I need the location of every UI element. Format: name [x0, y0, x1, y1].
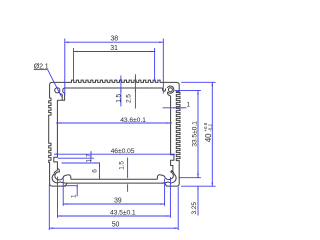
left wall inner face with panel groove — [54, 100, 58, 170]
dimension 1.7 line — [90, 152, 92, 158]
dimension 31 line — [74, 51, 155, 53]
svg-text:43.6±0.1: 43.6±0.1 — [120, 117, 146, 124]
right wall inner face with panel groove — [171, 96, 174, 170]
dimension 46 line — [54, 153, 175, 155]
dimension 33.5 line — [197, 90, 199, 177]
svg-text:2.5: 2.5 — [125, 94, 132, 103]
extension line bottom face right — [181, 185, 215, 187]
dimension 40 +0.8/-0.2 line — [211, 82, 213, 186]
svg-text:1.5: 1.5 — [115, 94, 122, 103]
top-left screw boss hole Ø2.1 — [55, 88, 60, 93]
svg-text:38: 38 — [111, 36, 119, 43]
dimension 43.5 extension lines — [57, 177, 59, 218]
dimension 1.5 (fin height) line — [120, 75, 122, 106]
svg-text:1: 1 — [187, 101, 191, 108]
top-right screw boss wall — [167, 86, 174, 96]
bottom-left screw boss (slot opens right) — [55, 169, 71, 180]
dimension 38 extension lines — [64, 39, 66, 96]
svg-text:3.25: 3.25 — [191, 202, 198, 215]
dimension 39 extension lines — [62, 177, 64, 206]
svg-text:46±0.05: 46±0.05 — [111, 148, 135, 155]
dimension 3.25 line — [197, 172, 199, 178]
dimension 39 line — [63, 203, 164, 205]
dimension 6 line — [99, 163, 101, 179]
dimension 1 (foot step) line — [76, 184, 78, 196]
dimension 1.5 (bottom wall) line — [127, 158, 129, 177]
svg-text:1.7: 1.7 — [86, 153, 93, 162]
dimension 43.5 line — [58, 215, 171, 217]
top-right screw boss slot notch — [163, 88, 166, 91]
extension line bottom boss centre — [179, 177, 201, 179]
leader line to screw hole — [34, 69, 48, 71]
svg-text:50: 50 — [112, 222, 120, 229]
bottom wall inner ledge — [71, 178, 158, 180]
extension line top face right — [181, 81, 215, 83]
dimension 43.6 line — [56, 122, 172, 124]
dimension 2.5 line — [134, 74, 136, 108]
bottom-right screw boss outer wall — [161, 171, 176, 184]
dimension 38 line — [65, 41, 164, 43]
svg-text:-0.2: -0.2 — [207, 123, 212, 131]
bottom-right screw boss (slot opens left) — [157, 170, 173, 180]
svg-text:6: 6 — [92, 169, 99, 173]
top-left screw boss slot — [57, 88, 64, 100]
svg-text:43.5±0.1: 43.5±0.1 — [110, 210, 136, 217]
dimension 31 extension lines — [73, 48, 75, 81]
top-right screw boss hole Ø2.1 — [168, 88, 172, 92]
extension line ledge upper — [62, 162, 101, 164]
svg-text:33.5±0.1: 33.5±0.1 — [191, 121, 198, 147]
bottom-left screw boss outer wall — [52, 171, 67, 184]
dimension 1 (foot step) extension — [64, 185, 78, 187]
svg-text:40: 40 — [204, 133, 213, 142]
extension line top boss centre — [175, 89, 201, 91]
extension line groove bottom — [58, 157, 94, 159]
svg-text:31: 31 — [110, 45, 118, 52]
top wall inner face — [65, 87, 163, 89]
svg-text:39: 39 — [114, 198, 122, 205]
dimension 50 line — [49, 227, 178, 229]
svg-text:1.5: 1.5 — [119, 161, 126, 170]
dimension 50 extension lines — [48, 184, 50, 230]
svg-text:1: 1 — [70, 194, 77, 198]
dimension 1 (right wall teeth) line — [163, 107, 187, 109]
aluminium extrusion shell with cooling fins (outer contour) — [49, 80, 180, 186]
